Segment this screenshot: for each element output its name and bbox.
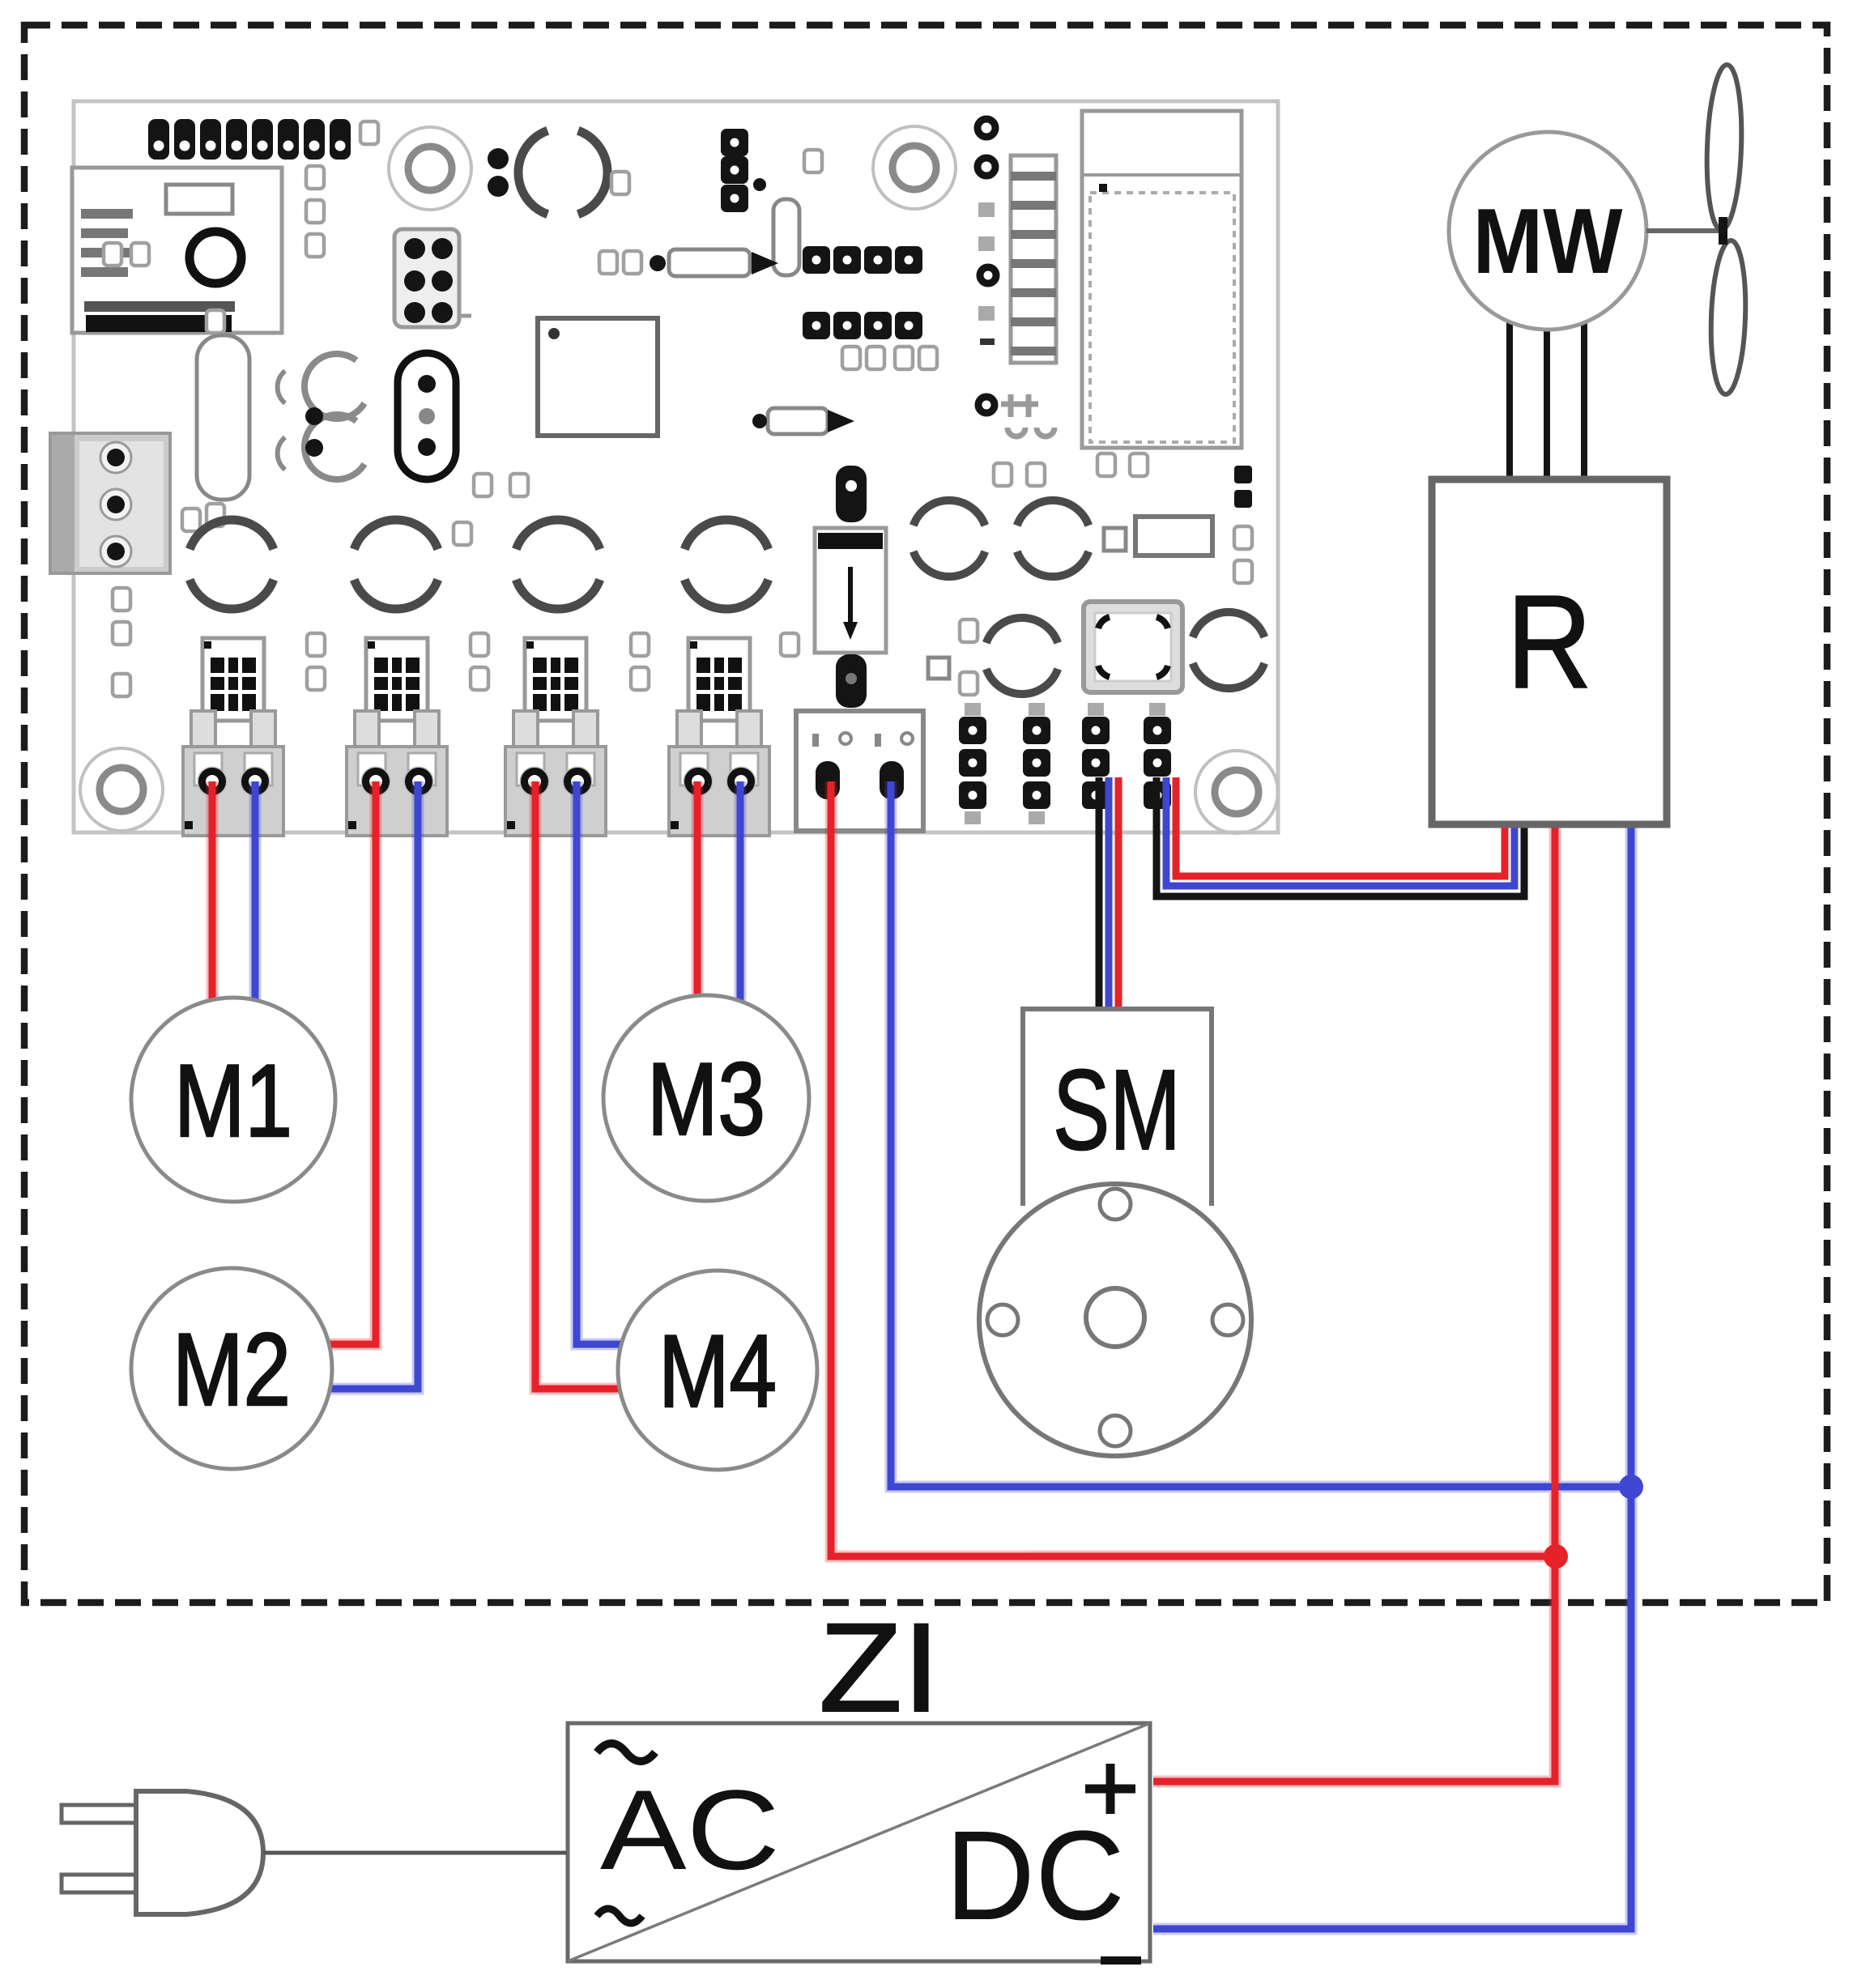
dashed enclosure border [24,25,1827,1603]
wire M3 blue [737,781,744,1003]
screw terminal X3 (3-pin, left edge) [50,433,200,573]
capacitor + button row [928,618,1058,695]
wire R bundle blue [1166,777,1514,886]
wire MW phase 3 [1581,323,1587,483]
pin header 1x3 + resistor (top middle-right) [721,129,822,275]
motor M1 [131,998,335,1202]
svg-text:R: R [1506,568,1592,716]
inductor L1 [1104,517,1212,556]
wire R bundle black [1157,777,1524,896]
mounting hole top-left [389,127,471,210]
resistor R1 (horizontal, with arrow) [599,249,778,276]
resistor R2 (horizontal, with arrow) [752,408,854,434]
wire M1 red [209,781,216,1002]
driver R [1432,479,1667,824]
crystal Y1 [398,353,456,479]
pin columns 4x(1x3) bottom-right [959,703,1171,824]
svg-text:AC: AC [600,1766,780,1893]
wire servo blue [891,781,1631,1487]
wire halos [212,781,1631,1929]
motor MW [1449,132,1646,330]
pads between drivers [307,633,799,690]
power supply ZI [568,1598,1150,1961]
mounting hole top-right [873,126,956,209]
wire MW phase 2 [1544,330,1550,483]
right edge pads [1234,466,1252,583]
svg-text:MW: MW [1473,190,1623,293]
mounting hole bottom-left [80,748,163,831]
motor M4 [618,1271,817,1470]
propeller shaft [1646,228,1720,233]
pin header J1 (8-pin row, top-left) [148,119,378,160]
wire SM red [1115,777,1122,1012]
svg-text:M1: M1 [174,1043,292,1158]
AC plug [62,1791,263,1914]
junction blue [1619,1475,1643,1499]
svg-text:M2: M2 [173,1312,291,1427]
wire M3 red [694,781,701,998]
PCB board outline [74,101,1278,832]
wire SM black [1096,777,1103,1012]
USB connector X1 [72,168,282,333]
resistor R3 (vertical) [197,310,249,526]
mid pads [454,474,528,545]
pin header 2x3 [394,229,471,327]
svg-text:M4: M4 [658,1313,777,1428]
capacitor right of button [1193,612,1264,688]
servo connector X2 [796,711,923,831]
wire M2 blue [330,781,418,1389]
LED D1 (vertical diode) [815,466,886,708]
electrolytic capacitors row [190,520,768,609]
transistor Q1 area [278,354,364,479]
left edge pads [113,588,130,696]
power cord [263,1851,567,1855]
motor driver + terminal block channel 3 [505,638,606,836]
junction red [1544,1544,1568,1569]
motor driver + terminal block channel 2 [347,638,447,836]
stepper motor SM body [979,1009,1251,1456]
mounting hole bottom-right [1195,751,1278,833]
wire M4 red [535,781,625,1389]
wire R to ZI plus red [1153,823,1555,1782]
propeller [1704,64,1748,394]
motor M2 [131,1268,332,1469]
wire M2 red [329,781,376,1344]
microcontroller U1 [538,318,658,436]
wire MW phase 1 [1506,321,1513,483]
push button S1 [1084,602,1182,692]
svg-text:ZI: ZI [819,1598,940,1739]
pads near USB [104,166,324,266]
motor driver + terminal block channel 4 [669,638,769,836]
svg-text:M3: M3 [647,1041,765,1156]
connector ladder [978,119,1056,363]
pin header 2x4 [803,246,937,369]
motor M3 [603,995,809,1201]
wire R bundle red [1176,777,1505,876]
wire servo red [831,781,1556,1556]
wire M1 blue [252,781,259,1002]
wire M4 blue [577,781,622,1344]
wire SM blue [1105,777,1113,1012]
wire R to ZI minus blue [1153,823,1631,1929]
svg-text:SM: SM [1053,1045,1181,1173]
wifi module U2 [1082,111,1242,448]
capacitors mid-right row [914,453,1148,577]
capacitor C1 (top, with via pair) [488,130,629,214]
motor driver + terminal block channel 1 [183,638,283,836]
svg-text:DC: DC [945,1805,1125,1947]
pad + glyphs below ladder [978,394,1054,436]
